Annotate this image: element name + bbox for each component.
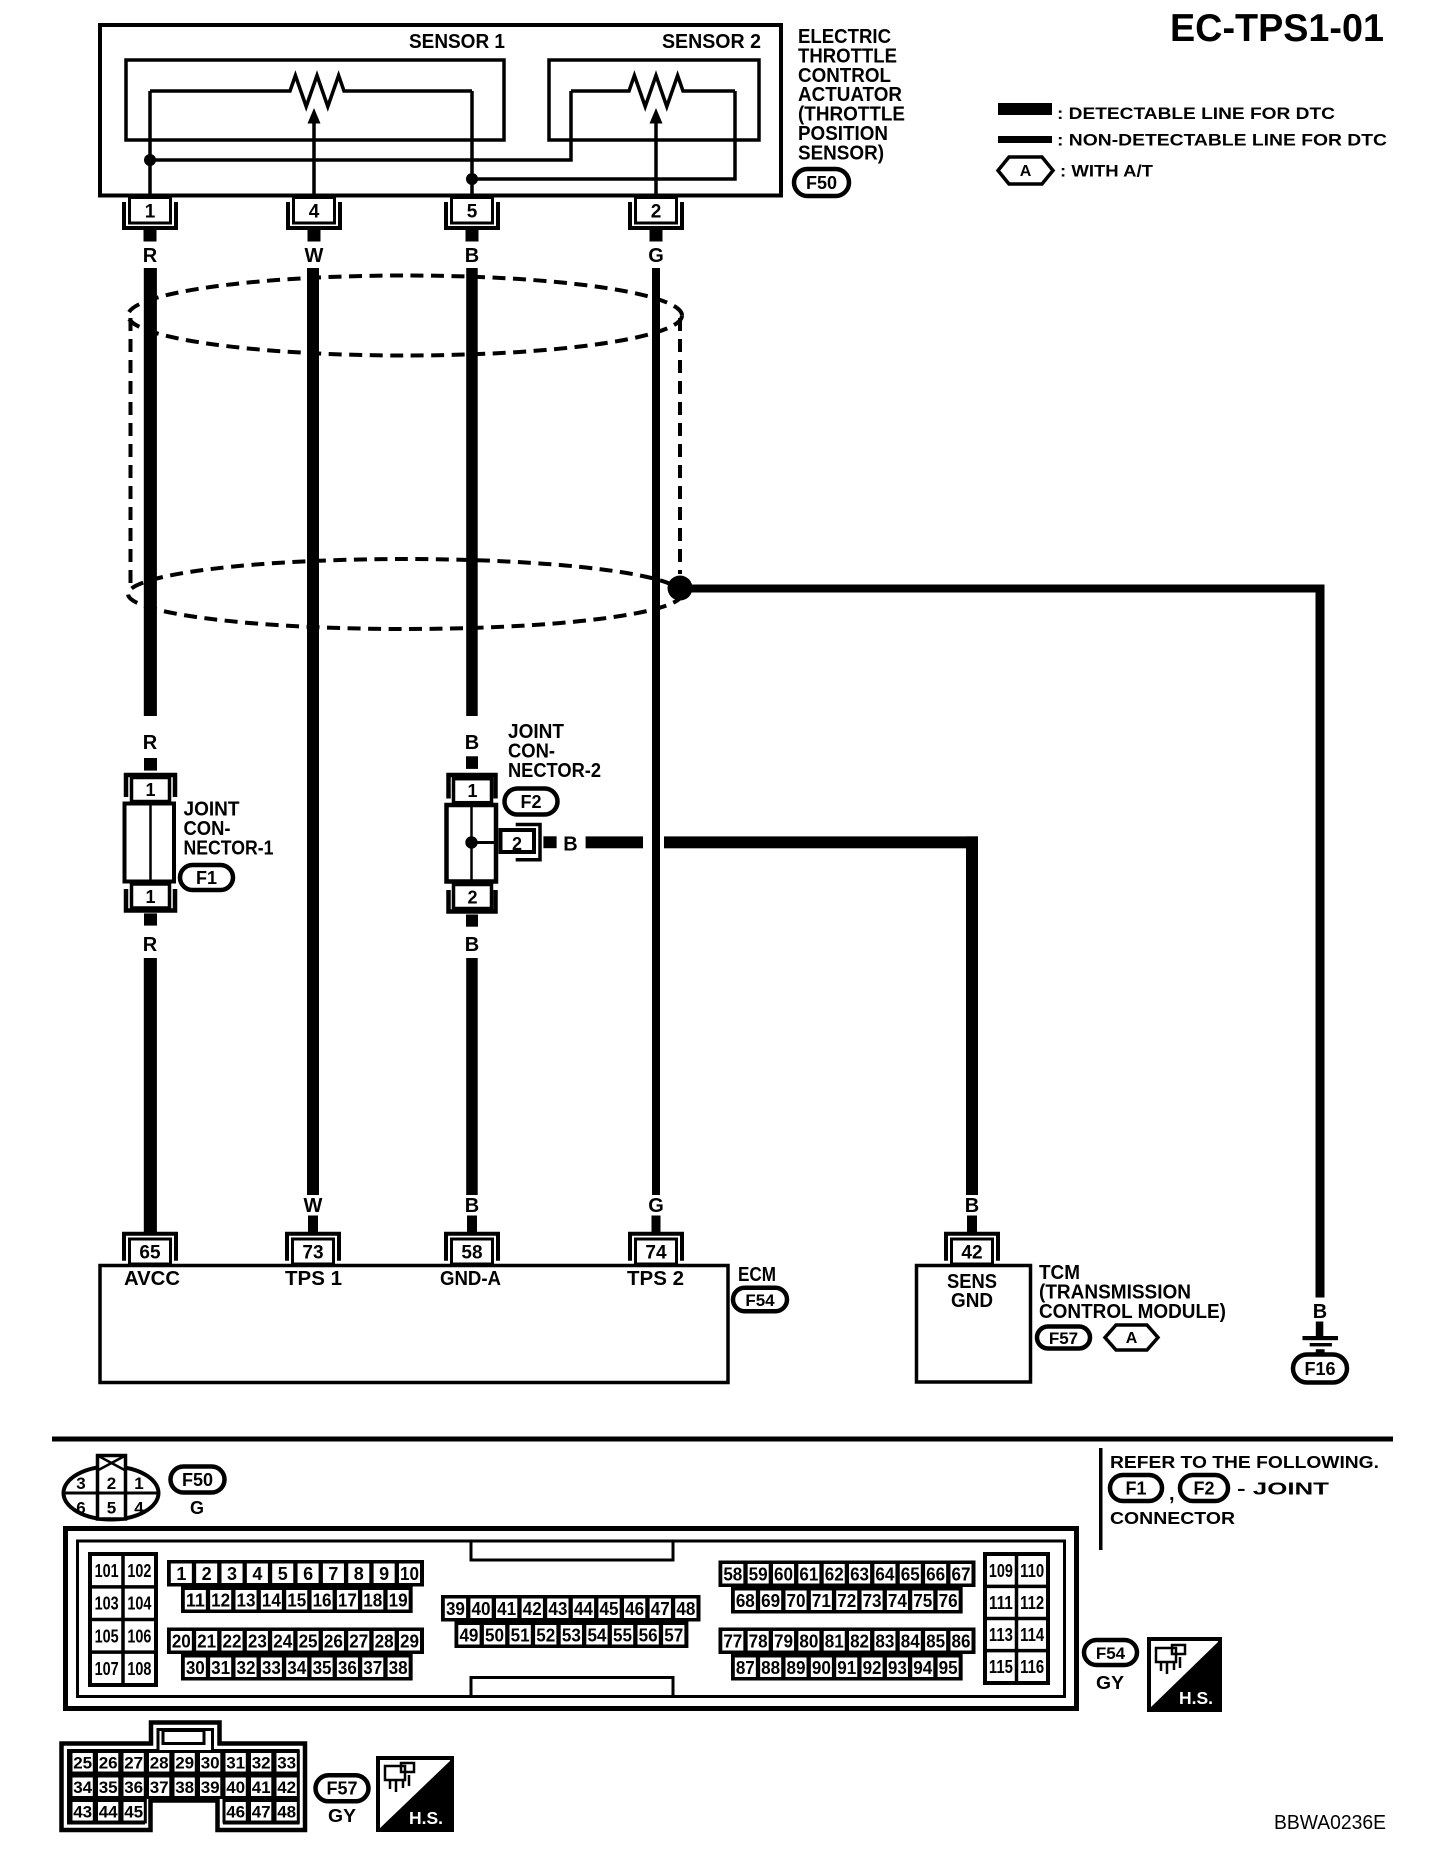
svg-text:F1: F1 xyxy=(196,868,217,888)
stub W xyxy=(308,1216,318,1233)
svg-text:20: 20 xyxy=(172,1631,191,1651)
svg-text:113: 113 xyxy=(989,1625,1013,1645)
legend: non-detectable line sample xyxy=(998,136,1052,143)
svg-text:83: 83 xyxy=(875,1631,894,1651)
svg-text:114: 114 xyxy=(1020,1625,1044,1645)
svg-text:27: 27 xyxy=(124,1753,143,1772)
svg-text:46: 46 xyxy=(226,1802,245,1821)
connector ref F2 xyxy=(505,789,558,815)
stub G xyxy=(652,1216,661,1233)
top notch xyxy=(471,1541,673,1560)
svg-text:GND-A: GND-A xyxy=(440,1268,501,1290)
svg-text:60: 60 xyxy=(774,1564,793,1584)
joint connector F2 body xyxy=(447,756,497,926)
svg-text:43: 43 xyxy=(548,1599,567,1619)
wire G (detectable) xyxy=(652,268,660,1195)
svg-text:4: 4 xyxy=(309,202,320,223)
svg-text:40: 40 xyxy=(472,1599,491,1619)
svg-text:34: 34 xyxy=(73,1778,92,1797)
svg-text:F57: F57 xyxy=(1049,1329,1078,1348)
pin strip 58-67 xyxy=(719,1561,976,1588)
svg-text:GND: GND xyxy=(951,1290,993,1312)
pin strip 11-19 xyxy=(181,1587,413,1614)
svg-text:NECTOR-1: NECTOR-1 xyxy=(184,838,274,860)
connector ref F54 xyxy=(733,1288,787,1312)
svg-text:2: 2 xyxy=(202,1564,212,1584)
svg-text:B: B xyxy=(465,732,479,754)
svg-text:12: 12 xyxy=(211,1590,230,1610)
ECM connector inner box xyxy=(78,1541,1065,1697)
svg-text:88: 88 xyxy=(761,1658,780,1678)
pin 5 xyxy=(446,198,498,242)
wiper arrow sensor 1 (pin 4) xyxy=(308,108,321,198)
svg-text:F54: F54 xyxy=(745,1291,775,1310)
svg-text:B: B xyxy=(965,1195,979,1217)
svg-text:74: 74 xyxy=(888,1591,907,1611)
connector ref F2 (refer) xyxy=(1180,1475,1228,1501)
svg-text:49: 49 xyxy=(459,1625,478,1645)
svg-text:6: 6 xyxy=(303,1564,313,1584)
wire W (detectable) xyxy=(307,268,319,1195)
svg-text:53: 53 xyxy=(562,1625,581,1645)
pin 65 xyxy=(124,1234,176,1264)
svg-text:63: 63 xyxy=(850,1564,869,1584)
svg-text:B: B xyxy=(465,245,479,267)
JC2 side terminal 2 xyxy=(501,825,557,860)
svg-text:107: 107 xyxy=(95,1659,119,1679)
svg-text:4: 4 xyxy=(252,1564,262,1584)
node: shield drain junction dot xyxy=(668,576,693,601)
svg-text:CONNECTOR: CONNECTOR xyxy=(1110,1508,1235,1528)
svg-text:5: 5 xyxy=(278,1564,288,1584)
svg-text:82: 82 xyxy=(850,1631,869,1651)
svg-text:64: 64 xyxy=(875,1564,894,1584)
svg-text:33: 33 xyxy=(262,1658,281,1678)
pin 42 xyxy=(946,1234,998,1264)
shield: dashed left side xyxy=(129,318,133,586)
svg-text:109: 109 xyxy=(989,1561,1013,1581)
wire: TCM drop vertical xyxy=(966,836,978,1195)
svg-text:35: 35 xyxy=(99,1778,118,1797)
svg-text:F50: F50 xyxy=(182,1470,213,1490)
svg-text:72: 72 xyxy=(837,1591,856,1611)
pin strip 77-86 xyxy=(719,1628,976,1655)
svg-text:39: 39 xyxy=(201,1778,220,1797)
svg-text:29: 29 xyxy=(175,1753,194,1772)
svg-text:,: , xyxy=(1169,1483,1175,1505)
wire: junction pin1 across to sensor2 left end xyxy=(150,91,571,160)
svg-text:B: B xyxy=(465,934,479,956)
pin cells 101-108 xyxy=(88,1552,158,1687)
wire: junction pin5 across to sensor2 right end xyxy=(472,91,735,179)
H.S. logo (F57 view) xyxy=(378,1758,452,1830)
pin 1 xyxy=(124,198,176,242)
svg-text:94: 94 xyxy=(913,1658,932,1678)
svg-text:18: 18 xyxy=(363,1590,382,1610)
svg-text:105: 105 xyxy=(95,1626,119,1646)
resistor sensor 1 xyxy=(150,76,472,107)
legend: detectable line sample xyxy=(998,103,1052,115)
svg-text:29: 29 xyxy=(400,1631,419,1651)
svg-text:36: 36 xyxy=(338,1658,357,1678)
connector view F50 (oval 6-pin) xyxy=(64,1456,159,1520)
connector view F57 outline xyxy=(62,1723,306,1831)
pin strip 30-38 xyxy=(181,1654,413,1681)
svg-text:58: 58 xyxy=(461,1243,482,1264)
svg-text:R: R xyxy=(143,732,158,754)
svg-text:SENSOR 1: SENSOR 1 xyxy=(409,31,505,53)
legend: with A/T hexagon xyxy=(998,157,1053,184)
svg-text:F57: F57 xyxy=(326,1779,357,1799)
electric throttle control actuator box F50 xyxy=(100,25,781,196)
shield: dashed right side xyxy=(678,318,682,574)
wiper arrow sensor 2 (pin 2) xyxy=(650,108,663,198)
F57 pin cells xyxy=(71,1752,298,1823)
svg-text:59: 59 xyxy=(749,1564,768,1584)
svg-text:G: G xyxy=(648,245,664,267)
svg-text:37: 37 xyxy=(363,1658,382,1678)
svg-text:H.S.: H.S. xyxy=(409,1808,443,1828)
svg-text:GY: GY xyxy=(1096,1673,1124,1693)
svg-text:16: 16 xyxy=(313,1590,332,1610)
connector ref F54 (view) xyxy=(1084,1640,1137,1665)
TCM box xyxy=(917,1266,1031,1383)
svg-text:58: 58 xyxy=(723,1564,742,1584)
svg-text:H.S.: H.S. xyxy=(1179,1688,1213,1708)
svg-text:TPS 2: TPS 2 xyxy=(627,1268,684,1290)
svg-text:1: 1 xyxy=(176,1564,186,1584)
svg-text:10: 10 xyxy=(400,1564,419,1584)
wire: shield drain down to ground xyxy=(1316,585,1325,1298)
svg-text:40: 40 xyxy=(226,1778,245,1797)
svg-text:43: 43 xyxy=(73,1802,92,1821)
svg-text:23: 23 xyxy=(248,1631,267,1651)
svg-text:22: 22 xyxy=(223,1631,242,1651)
wire: resistor1 right end down to pin 5 xyxy=(470,91,474,198)
shield: dashed top ellipse xyxy=(128,276,682,356)
svg-text:48: 48 xyxy=(277,1802,296,1821)
svg-text:45: 45 xyxy=(124,1802,143,1821)
svg-text:50: 50 xyxy=(485,1625,504,1645)
svg-text:76: 76 xyxy=(939,1591,958,1611)
svg-text:75: 75 xyxy=(913,1591,932,1611)
svg-text:30: 30 xyxy=(186,1658,205,1678)
svg-text:73: 73 xyxy=(863,1591,882,1611)
ground symbol xyxy=(1303,1336,1339,1353)
svg-text:2: 2 xyxy=(651,202,662,223)
svg-text:F54: F54 xyxy=(1096,1644,1126,1663)
ECM box xyxy=(100,1266,728,1383)
svg-text:42: 42 xyxy=(961,1243,982,1264)
stub B TCM xyxy=(967,1216,977,1233)
TCM pin name SENS GND xyxy=(947,1271,997,1312)
pin strip 20-29 xyxy=(167,1628,424,1655)
svg-text:7: 7 xyxy=(328,1564,338,1584)
svg-text:B: B xyxy=(1313,1301,1327,1323)
stub B xyxy=(467,1216,477,1233)
svg-text:25: 25 xyxy=(299,1631,318,1651)
svg-text:70: 70 xyxy=(787,1591,806,1611)
svg-text:78: 78 xyxy=(749,1631,768,1651)
svg-text:33: 33 xyxy=(277,1753,296,1772)
JC2 text xyxy=(508,721,601,782)
svg-text:111: 111 xyxy=(989,1593,1013,1613)
svg-text:9: 9 xyxy=(379,1564,389,1584)
svg-text:91: 91 xyxy=(837,1658,856,1678)
svg-text:32: 32 xyxy=(252,1753,271,1772)
pin strip 68-76 xyxy=(731,1587,963,1614)
svg-text:74: 74 xyxy=(645,1243,667,1264)
svg-text:1: 1 xyxy=(145,887,155,907)
pin strip 1-10 xyxy=(167,1560,424,1587)
svg-text:27: 27 xyxy=(349,1631,368,1651)
svg-text:66: 66 xyxy=(926,1564,945,1584)
pin cells 109-116 xyxy=(983,1552,1050,1685)
svg-text:A: A xyxy=(1126,1330,1138,1347)
svg-text:81: 81 xyxy=(825,1631,844,1651)
connector ref F57 xyxy=(1037,1327,1090,1349)
pin 58 xyxy=(446,1234,498,1264)
svg-text:15: 15 xyxy=(287,1590,306,1610)
pin 4 xyxy=(288,198,340,242)
connector ref F50 (view) xyxy=(171,1467,225,1493)
svg-text:5: 5 xyxy=(467,202,478,223)
svg-text:28: 28 xyxy=(375,1631,394,1651)
svg-text:1: 1 xyxy=(134,1474,143,1493)
wire B (detectable) lower segment xyxy=(466,958,478,1195)
separator line xyxy=(52,1437,1393,1442)
svg-text:19: 19 xyxy=(389,1590,408,1610)
svg-text:13: 13 xyxy=(237,1590,256,1610)
svg-text:30: 30 xyxy=(201,1753,220,1772)
svg-text:65: 65 xyxy=(139,1243,161,1264)
svg-text:31: 31 xyxy=(211,1658,230,1678)
svg-text:47: 47 xyxy=(252,1802,271,1821)
joint connector F1 xyxy=(125,758,176,926)
svg-text:51: 51 xyxy=(511,1625,530,1645)
wire: resistor1 left end down to pin 1 xyxy=(148,91,152,198)
svg-text:89: 89 xyxy=(787,1658,806,1678)
svg-text:21: 21 xyxy=(197,1631,216,1651)
svg-text:102: 102 xyxy=(127,1561,151,1581)
svg-text:17: 17 xyxy=(338,1590,357,1610)
svg-text:26: 26 xyxy=(99,1753,118,1772)
svg-text:F2: F2 xyxy=(520,792,541,812)
pin 2 xyxy=(630,198,682,242)
svg-text:44: 44 xyxy=(99,1802,118,1821)
wire B (detectable) upper segment xyxy=(466,268,478,716)
svg-text:2: 2 xyxy=(512,834,522,854)
svg-text:41: 41 xyxy=(252,1778,271,1797)
svg-text:112: 112 xyxy=(1020,1593,1044,1613)
svg-text:69: 69 xyxy=(761,1591,780,1611)
svg-text:34: 34 xyxy=(287,1658,306,1678)
svg-text:57: 57 xyxy=(664,1625,683,1645)
sensor 1 inner box xyxy=(126,60,504,140)
bottom notch xyxy=(471,1678,673,1697)
svg-text:W: W xyxy=(305,245,324,267)
svg-text:85: 85 xyxy=(926,1631,945,1651)
svg-text:: WITH A/T: : WITH A/T xyxy=(1060,162,1154,181)
svg-text:EC-TPS1-01: EC-TPS1-01 xyxy=(1170,7,1384,50)
svg-text:39: 39 xyxy=(446,1599,465,1619)
svg-text:6: 6 xyxy=(76,1499,85,1518)
svg-text:1: 1 xyxy=(145,780,155,800)
svg-text:41: 41 xyxy=(497,1599,516,1619)
svg-text:47: 47 xyxy=(651,1599,670,1619)
svg-text:3: 3 xyxy=(76,1474,85,1493)
svg-text:56: 56 xyxy=(639,1625,658,1645)
svg-text:46: 46 xyxy=(625,1599,644,1619)
pin strip 49-57 xyxy=(455,1622,689,1649)
svg-text:24: 24 xyxy=(273,1631,292,1651)
pin 74 xyxy=(630,1234,682,1264)
actuator text block xyxy=(798,26,905,164)
svg-text:F16: F16 xyxy=(1304,1359,1335,1379)
shield: dashed bottom ellipse xyxy=(128,559,682,629)
node: junction dot pin5 xyxy=(466,173,478,185)
svg-text:42: 42 xyxy=(523,1599,542,1619)
svg-text:2: 2 xyxy=(467,888,477,908)
svg-text:NECTOR-2: NECTOR-2 xyxy=(508,760,601,782)
refer divider line xyxy=(1099,1448,1103,1550)
svg-text:25: 25 xyxy=(73,1753,92,1772)
with A/T hexagon xyxy=(1105,1325,1158,1350)
wire R (detectable) upper segment xyxy=(144,268,157,716)
svg-text:67: 67 xyxy=(951,1564,970,1584)
svg-text:- JOINT: - JOINT xyxy=(1237,1479,1329,1499)
svg-text:101: 101 xyxy=(95,1561,119,1581)
svg-text:68: 68 xyxy=(736,1591,755,1611)
svg-text:35: 35 xyxy=(313,1658,332,1678)
svg-text:R: R xyxy=(143,245,158,267)
svg-text:: DETECTABLE LINE FOR DTC: : DETECTABLE LINE FOR DTC xyxy=(1057,104,1335,123)
svg-text:45: 45 xyxy=(600,1599,619,1619)
svg-text:W: W xyxy=(304,1195,323,1217)
connector ref F57 (view) xyxy=(316,1775,369,1801)
svg-text:65: 65 xyxy=(901,1564,920,1584)
connector ref F16 xyxy=(1293,1355,1347,1383)
svg-text:R: R xyxy=(143,934,158,956)
svg-text:52: 52 xyxy=(536,1625,555,1645)
svg-text:BBWA0236E: BBWA0236E xyxy=(1274,1812,1386,1834)
svg-text:AVCC: AVCC xyxy=(124,1268,180,1290)
wire R (detectable) lower segment xyxy=(144,958,157,1233)
pin strip 39-48 xyxy=(441,1595,701,1622)
svg-text:38: 38 xyxy=(389,1658,408,1678)
svg-text:B: B xyxy=(465,1195,479,1217)
svg-text:104: 104 xyxy=(127,1594,151,1614)
svg-text:71: 71 xyxy=(812,1591,831,1611)
connector ref F50 xyxy=(794,169,849,196)
svg-text:: NON-DETECTABLE LINE FOR DTC: : NON-DETECTABLE LINE FOR DTC xyxy=(1057,131,1387,150)
svg-text:116: 116 xyxy=(1020,1657,1044,1677)
svg-text:1: 1 xyxy=(467,781,477,801)
svg-text:1: 1 xyxy=(145,202,156,223)
svg-text:36: 36 xyxy=(124,1778,143,1797)
svg-text:103: 103 xyxy=(95,1594,119,1614)
svg-text:GY: GY xyxy=(328,1806,356,1826)
svg-text:31: 31 xyxy=(226,1753,245,1772)
svg-text:37: 37 xyxy=(150,1778,169,1797)
svg-text:B: B xyxy=(563,834,577,856)
svg-text:42: 42 xyxy=(277,1778,296,1797)
svg-text:115: 115 xyxy=(989,1657,1013,1677)
svg-text:73: 73 xyxy=(302,1243,323,1264)
svg-text:61: 61 xyxy=(799,1564,818,1584)
svg-text:8: 8 xyxy=(354,1564,364,1584)
svg-text:87: 87 xyxy=(736,1658,755,1678)
resistor sensor 2 xyxy=(571,76,735,107)
svg-text:G: G xyxy=(190,1498,204,1518)
svg-text:CONTROL MODULE): CONTROL MODULE) xyxy=(1039,1301,1226,1323)
wire B from JC2 to TCM (detectable) xyxy=(586,836,643,848)
JC1 text xyxy=(184,799,274,860)
ground stub xyxy=(1316,1322,1324,1337)
label TCM xyxy=(1039,1262,1226,1323)
wire: shield drain to right (B) xyxy=(680,585,1325,593)
ECM connector view F54 outer box xyxy=(66,1529,1077,1709)
svg-text:44: 44 xyxy=(574,1599,593,1619)
svg-text:110: 110 xyxy=(1020,1561,1044,1581)
svg-text:SENSOR 2: SENSOR 2 xyxy=(662,31,761,53)
svg-text:95: 95 xyxy=(939,1658,958,1678)
svg-text:G: G xyxy=(648,1195,664,1217)
svg-text:62: 62 xyxy=(825,1564,844,1584)
svg-text:4: 4 xyxy=(134,1499,144,1518)
pin strip 87-95 xyxy=(731,1654,963,1681)
pin 73 xyxy=(287,1234,339,1264)
svg-text:92: 92 xyxy=(863,1658,882,1678)
svg-text:2: 2 xyxy=(107,1474,116,1493)
svg-text:A: A xyxy=(1020,163,1032,180)
svg-text:5: 5 xyxy=(107,1499,116,1518)
svg-text:F2: F2 xyxy=(1193,1478,1214,1498)
svg-text:79: 79 xyxy=(774,1631,793,1651)
svg-text:SENSOR): SENSOR) xyxy=(798,142,884,164)
svg-text:106: 106 xyxy=(127,1626,151,1646)
svg-text:F1: F1 xyxy=(1125,1478,1146,1498)
svg-text:26: 26 xyxy=(324,1631,343,1651)
svg-text:84: 84 xyxy=(901,1631,920,1651)
connector ref F1 (refer) xyxy=(1110,1475,1162,1501)
svg-text:93: 93 xyxy=(888,1658,907,1678)
node: junction dot pin1 xyxy=(144,154,156,166)
H.S. logo (F54 view) xyxy=(1149,1639,1220,1710)
svg-text:11: 11 xyxy=(186,1590,205,1610)
svg-text:3: 3 xyxy=(227,1564,237,1584)
svg-text:55: 55 xyxy=(613,1625,632,1645)
svg-text:F50: F50 xyxy=(806,173,837,193)
svg-text:86: 86 xyxy=(951,1631,970,1651)
sensor 2 inner box xyxy=(549,60,759,140)
svg-text:REFER TO THE FOLLOWING.: REFER TO THE FOLLOWING. xyxy=(1110,1452,1379,1472)
svg-text:80: 80 xyxy=(799,1631,818,1651)
svg-text:77: 77 xyxy=(723,1631,742,1651)
svg-text:32: 32 xyxy=(237,1658,256,1678)
svg-text:108: 108 xyxy=(127,1659,151,1679)
svg-text:38: 38 xyxy=(175,1778,194,1797)
svg-text:ECM: ECM xyxy=(738,1264,776,1286)
svg-text:14: 14 xyxy=(262,1590,281,1610)
svg-text:90: 90 xyxy=(812,1658,831,1678)
svg-text:54: 54 xyxy=(587,1625,606,1645)
svg-text:TPS 1: TPS 1 xyxy=(285,1268,342,1290)
connector ref F1 xyxy=(180,865,233,890)
svg-text:48: 48 xyxy=(676,1599,695,1619)
svg-text:28: 28 xyxy=(150,1753,169,1772)
